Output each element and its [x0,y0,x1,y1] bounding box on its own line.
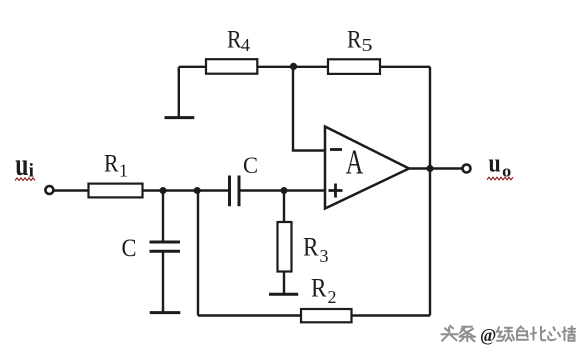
svg-text:R: R [104,150,119,177]
svg-text:4: 4 [241,35,250,55]
svg-text:C: C [122,235,137,262]
svg-text:R: R [227,26,242,53]
svg-text:3: 3 [320,246,329,266]
svg-text:A: A [346,143,364,182]
svg-text:5: 5 [362,35,373,55]
svg-text:1: 1 [119,161,128,181]
svg-text:R: R [311,274,327,303]
svg-text:u: u [489,148,501,177]
svg-text:@: @ [480,325,496,345]
svg-text:R: R [303,233,319,262]
svg-text:R: R [347,26,362,53]
svg-text:C: C [243,153,258,178]
svg-text:2: 2 [328,287,337,307]
svg-text:u: u [15,146,28,182]
